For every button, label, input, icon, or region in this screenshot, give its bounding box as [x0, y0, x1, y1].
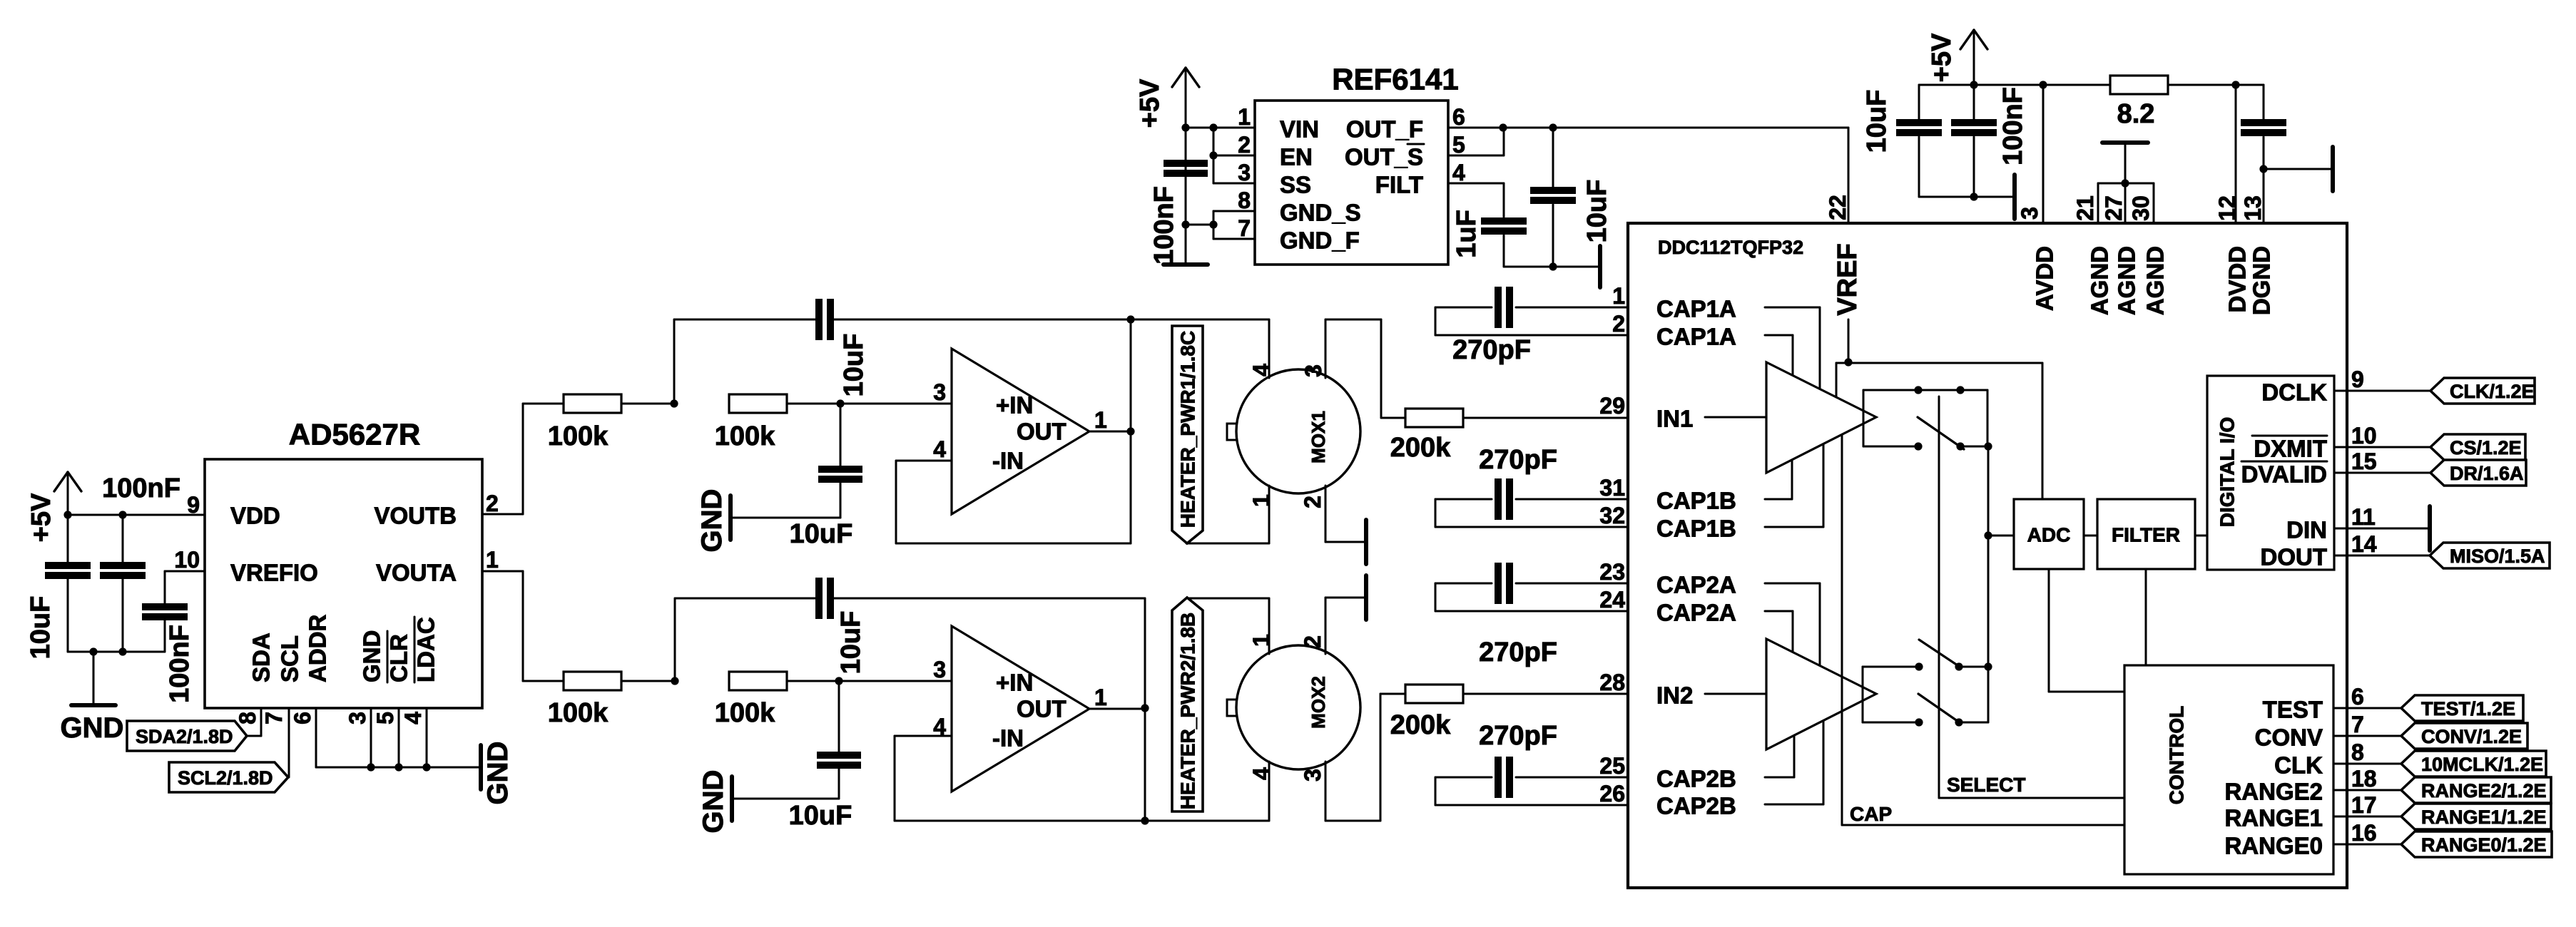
svg-text:8.2: 8.2	[2117, 99, 2155, 129]
svg-text:RANGE2: RANGE2	[2224, 779, 2323, 805]
svg-text:2: 2	[486, 491, 499, 516]
svg-text:RANGE0: RANGE0	[2224, 833, 2323, 859]
svg-text:32: 32	[1599, 503, 1625, 528]
svg-text:+5V: +5V	[1135, 78, 1165, 128]
svg-text:RANGE0/1.2E: RANGE0/1.2E	[2421, 834, 2547, 856]
svg-text:25: 25	[1599, 753, 1625, 779]
svg-text:9: 9	[187, 492, 200, 518]
svg-text:CAP2A: CAP2A	[1656, 600, 1736, 626]
svg-text:RANGE1/1.2E: RANGE1/1.2E	[2421, 806, 2547, 828]
svg-text:10uF: 10uF	[839, 334, 869, 397]
svg-text:270pF: 270pF	[1479, 637, 1557, 667]
svg-text:TEST: TEST	[2263, 697, 2323, 723]
svg-text:7: 7	[2351, 712, 2364, 737]
svg-text:HEATER_PWR1/1.8C: HEATER_PWR1/1.8C	[1177, 331, 1199, 528]
svg-text:100nF: 100nF	[1149, 186, 1179, 265]
svg-text:REF6141: REF6141	[1332, 63, 1458, 96]
svg-text:+5V: +5V	[26, 493, 56, 542]
svg-text:17: 17	[2351, 792, 2377, 818]
svg-text:2: 2	[1612, 311, 1625, 337]
svg-text:+IN: +IN	[996, 670, 1033, 696]
svg-text:16: 16	[2351, 820, 2377, 846]
svg-text:6: 6	[290, 712, 315, 724]
svg-text:CAP1A: CAP1A	[1656, 296, 1736, 322]
svg-text:1: 1	[1248, 634, 1274, 647]
svg-text:10: 10	[2351, 423, 2377, 449]
svg-text:10MCLK/1.2E: 10MCLK/1.2E	[2421, 754, 2543, 775]
svg-text:1: 1	[1238, 104, 1251, 130]
svg-text:13: 13	[2240, 195, 2266, 221]
svg-text:200k: 200k	[1390, 433, 1451, 463]
svg-text:DVDD: DVDD	[2224, 246, 2251, 313]
svg-text:100k: 100k	[548, 698, 609, 728]
svg-text:1: 1	[1612, 283, 1625, 309]
svg-text:31: 31	[1599, 475, 1625, 501]
svg-text:SS: SS	[1280, 172, 1311, 198]
svg-text:7: 7	[261, 712, 287, 724]
svg-text:GND: GND	[482, 742, 514, 805]
svg-text:EN: EN	[1280, 144, 1313, 170]
svg-text:LDAC: LDAC	[413, 617, 439, 682]
svg-text:270pF: 270pF	[1452, 335, 1531, 365]
svg-text:DIGITAL I/O: DIGITAL I/O	[2216, 417, 2239, 528]
svg-text:DDC112TQFP32: DDC112TQFP32	[1658, 237, 1803, 258]
svg-text:3: 3	[933, 379, 946, 405]
svg-text:29: 29	[1599, 393, 1625, 419]
svg-text:3: 3	[1238, 160, 1251, 185]
svg-text:CAP: CAP	[1850, 803, 1892, 825]
svg-text:CS/1.2E: CS/1.2E	[2450, 437, 2522, 459]
svg-text:OUT: OUT	[1017, 696, 1066, 722]
svg-text:GND: GND	[698, 770, 729, 834]
svg-text:VDD: VDD	[230, 503, 280, 529]
svg-text:DVALID: DVALID	[2241, 461, 2327, 488]
svg-text:26: 26	[1599, 781, 1625, 806]
svg-text:VOUTA: VOUTA	[376, 560, 457, 586]
svg-text:CONV/1.2E: CONV/1.2E	[2421, 726, 2522, 747]
svg-text:7: 7	[1238, 215, 1251, 241]
svg-text:GND_S: GND_S	[1280, 200, 1361, 226]
svg-text:TEST/1.2E: TEST/1.2E	[2421, 698, 2515, 719]
svg-text:MOX2: MOX2	[1308, 676, 1329, 729]
svg-text:100nF: 100nF	[1998, 87, 2028, 165]
svg-text:2: 2	[1300, 635, 1325, 648]
svg-text:ADC: ADC	[2027, 524, 2071, 546]
svg-text:FILT: FILT	[1375, 172, 1423, 198]
svg-text:24: 24	[1599, 587, 1625, 613]
svg-text:8: 8	[1238, 188, 1251, 213]
svg-text:VREF: VREF	[1833, 243, 1863, 315]
svg-text:IN2: IN2	[1656, 682, 1693, 709]
svg-text:+IN: +IN	[996, 392, 1033, 419]
svg-text:270pF: 270pF	[1479, 721, 1557, 751]
svg-text:SDA2/1.8D: SDA2/1.8D	[136, 726, 233, 747]
svg-text:-IN: -IN	[992, 725, 1024, 752]
svg-text:4: 4	[1452, 160, 1465, 185]
svg-text:100k: 100k	[548, 421, 609, 451]
svg-text:100nF: 100nF	[165, 625, 195, 703]
svg-text:CAP2A: CAP2A	[1656, 572, 1736, 598]
svg-text:MISO/1.5A: MISO/1.5A	[2450, 546, 2545, 567]
svg-text:AVDD: AVDD	[2032, 246, 2058, 311]
svg-text:OUT: OUT	[1017, 419, 1066, 445]
svg-text:MOX1: MOX1	[1308, 411, 1329, 463]
svg-text:HEATER_PWR2/1.8B: HEATER_PWR2/1.8B	[1177, 613, 1199, 809]
svg-text:1: 1	[1248, 494, 1274, 507]
svg-text:11: 11	[2351, 504, 2376, 530]
svg-text:CLK: CLK	[2274, 752, 2323, 779]
svg-text:SCL2/1.8D: SCL2/1.8D	[178, 767, 273, 789]
svg-text:1: 1	[1094, 685, 1107, 710]
svg-text:1uF: 1uF	[1452, 210, 1482, 258]
svg-text:6: 6	[1452, 104, 1465, 130]
svg-text:3: 3	[933, 657, 946, 682]
svg-text:10uF: 10uF	[1582, 180, 1612, 243]
svg-text:VOUTB: VOUTB	[375, 503, 457, 529]
svg-text:CLR: CLR	[386, 634, 412, 682]
svg-text:CAP1A: CAP1A	[1656, 324, 1736, 350]
svg-text:5: 5	[372, 712, 398, 724]
svg-text:FILTER: FILTER	[2112, 524, 2180, 546]
svg-text:2: 2	[1238, 132, 1251, 158]
svg-text:AGND: AGND	[2114, 246, 2140, 315]
svg-text:3: 3	[2017, 207, 2042, 220]
svg-text:4: 4	[400, 712, 426, 724]
svg-text:SDA: SDA	[248, 632, 275, 682]
svg-text:10: 10	[174, 547, 200, 573]
svg-text:SCL: SCL	[277, 635, 303, 682]
svg-text:CAP1B: CAP1B	[1656, 488, 1736, 514]
svg-text:GND: GND	[61, 712, 124, 744]
svg-text:GND_F: GND_F	[1280, 227, 1360, 254]
svg-text:10uF: 10uF	[26, 596, 56, 660]
svg-text:3: 3	[1300, 364, 1326, 377]
svg-text:CONTROL: CONTROL	[2166, 706, 2188, 804]
svg-text:RANGE1: RANGE1	[2224, 805, 2323, 831]
svg-text:10uF: 10uF	[1862, 90, 1892, 153]
svg-text:DOUT: DOUT	[2261, 544, 2328, 570]
svg-text:ADDR: ADDR	[305, 615, 331, 682]
svg-text:SELECT: SELECT	[1947, 774, 2025, 796]
svg-text:8: 8	[2351, 739, 2364, 765]
svg-text:14: 14	[2351, 531, 2377, 557]
svg-text:1: 1	[1094, 407, 1107, 433]
svg-text:270pF: 270pF	[1479, 445, 1557, 475]
svg-text:4: 4	[1248, 767, 1274, 780]
svg-text:21: 21	[2072, 195, 2098, 221]
svg-text:IN1: IN1	[1656, 406, 1693, 432]
svg-text:DCLK: DCLK	[2261, 379, 2327, 406]
svg-text:VREFIO: VREFIO	[230, 560, 318, 586]
svg-text:10uF: 10uF	[836, 611, 866, 675]
svg-text:DIN: DIN	[2286, 517, 2327, 543]
svg-text:4: 4	[933, 436, 946, 462]
svg-text:+5V: +5V	[1927, 33, 1957, 82]
svg-text:3: 3	[1300, 769, 1325, 782]
svg-text:200k: 200k	[1390, 710, 1451, 740]
svg-text:27: 27	[2101, 195, 2127, 221]
svg-text:OUT_F: OUT_F	[1346, 116, 1423, 143]
svg-text:-IN: -IN	[992, 448, 1024, 474]
svg-text:28: 28	[1599, 670, 1625, 695]
svg-text:AGND: AGND	[2087, 246, 2113, 315]
svg-text:CAP2B: CAP2B	[1656, 793, 1736, 819]
svg-text:100nF: 100nF	[102, 473, 180, 503]
svg-text:30: 30	[2128, 195, 2154, 221]
svg-text:CLK/1.2E: CLK/1.2E	[2450, 381, 2535, 402]
svg-text:OUT_S: OUT_S	[1345, 144, 1423, 170]
svg-text:AGND: AGND	[2142, 246, 2169, 315]
svg-text:GND: GND	[696, 489, 728, 553]
svg-text:DGND: DGND	[2249, 246, 2275, 315]
svg-text:RANGE2/1.2E: RANGE2/1.2E	[2421, 780, 2547, 801]
svg-text:15: 15	[2351, 449, 2377, 474]
svg-text:12: 12	[2214, 195, 2240, 221]
svg-text:DXMIT: DXMIT	[2254, 436, 2327, 462]
svg-text:18: 18	[2351, 766, 2377, 792]
svg-text:8: 8	[235, 712, 260, 724]
svg-text:23: 23	[1599, 559, 1625, 585]
svg-text:CAP2B: CAP2B	[1656, 766, 1736, 792]
svg-text:5: 5	[1452, 132, 1465, 158]
svg-text:VIN: VIN	[1280, 116, 1319, 143]
svg-text:9: 9	[2351, 367, 2364, 392]
svg-text:GND: GND	[359, 630, 385, 682]
svg-text:CONV: CONV	[2255, 724, 2323, 751]
svg-text:AD5627R: AD5627R	[289, 418, 420, 451]
svg-text:DR/1.6A: DR/1.6A	[2450, 463, 2524, 484]
svg-text:CAP1B: CAP1B	[1656, 516, 1736, 542]
svg-text:100k: 100k	[715, 421, 775, 451]
svg-text:100k: 100k	[715, 698, 775, 728]
svg-text:10uF: 10uF	[789, 801, 852, 831]
svg-text:10uF: 10uF	[790, 519, 853, 549]
svg-text:6: 6	[2351, 684, 2364, 710]
svg-text:2: 2	[1300, 496, 1325, 508]
svg-text:4: 4	[1248, 364, 1274, 377]
svg-text:1: 1	[486, 547, 499, 573]
svg-text:3: 3	[345, 712, 370, 724]
svg-text:22: 22	[1825, 195, 1850, 220]
